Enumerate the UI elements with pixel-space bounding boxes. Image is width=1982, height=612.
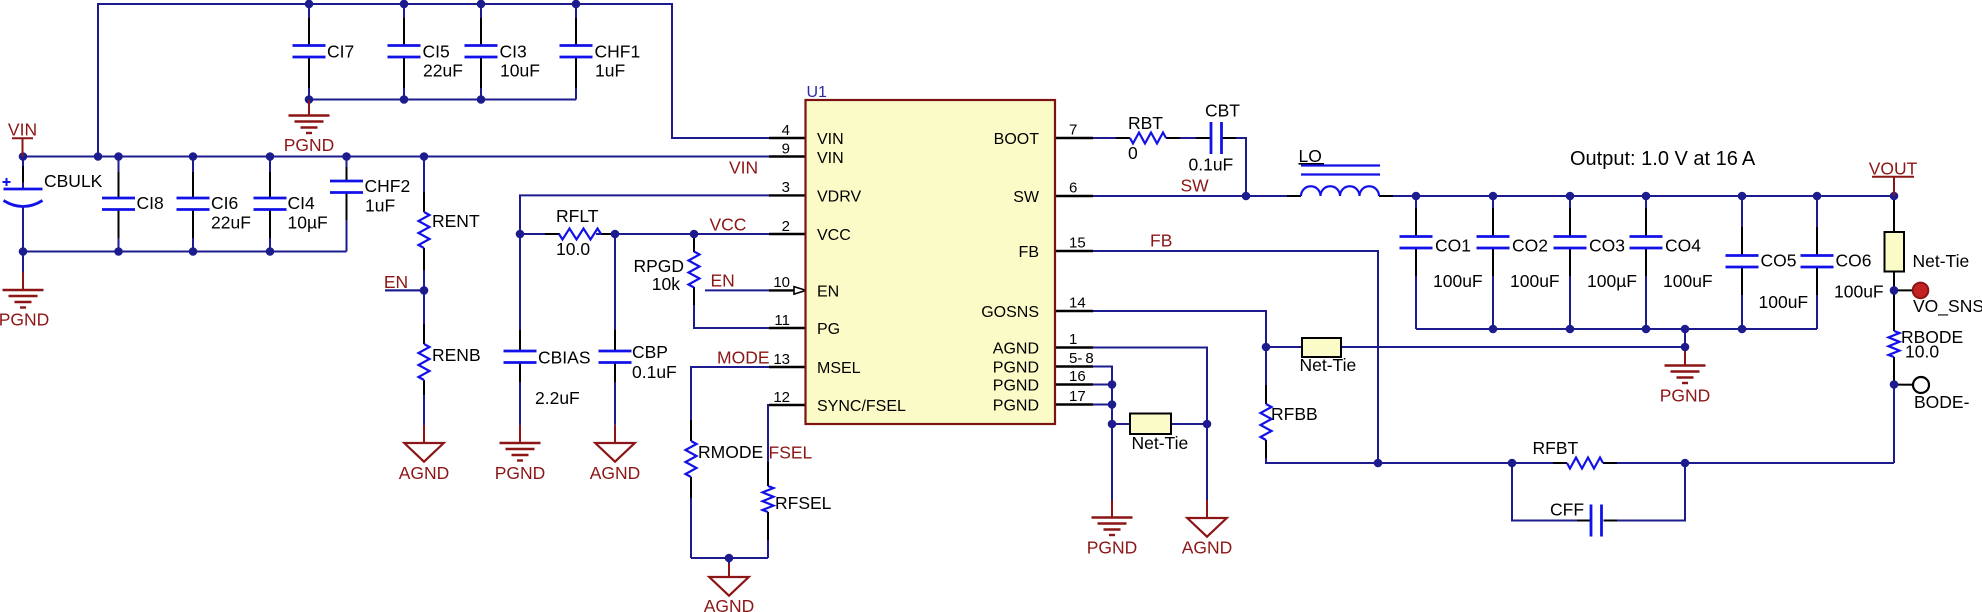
pin stubs U1 left [769,137,806,139]
svg-text:22uF: 22uF [423,61,463,81]
svg-text:GOSNS: GOSNS [981,304,1039,321]
svg-text:4: 4 [782,122,790,139]
wire CO1 leads [1415,196,1417,237]
capacitor CI4 [254,197,287,200]
wire RFBT right [1603,462,1894,464]
svg-text:SW: SW [1013,189,1040,206]
svg-text:Net-Tie: Net-Tie [1913,251,1970,271]
capacitor CO4 [1630,235,1663,238]
junction dot EN node [420,286,429,295]
wire FB pin to feedback node [1055,251,1378,463]
junction dots PGND pins bus [1108,380,1117,389]
wire feedback rail to RFBT [1378,462,1567,464]
svg-text:SYNC/FSEL: SYNC/FSEL [817,398,906,415]
svg-text:0.1uF: 0.1uF [632,362,677,382]
svg-text:CO5: CO5 [1761,251,1797,271]
wire BODE riser [1893,385,1895,464]
wire VO_SNS stub [1894,289,1913,291]
wire VDRV to VCC node [520,195,769,234]
wire top capbank bottom rail [309,99,576,101]
wire CBT to SW node [1222,138,1246,196]
svg-text:BODE-: BODE- [1914,392,1970,412]
svg-text:U1: U1 [807,84,828,101]
capacitor CI6 [177,197,210,200]
capacitor CO3 [1554,235,1587,238]
net-tie NT3 vertical [1885,232,1905,272]
wire CHF2 leads [346,157,348,182]
junction dots top rail [305,0,314,8]
wire RENT to EN node [423,248,425,290]
resistor RBODE [1889,331,1900,357]
ground AGND net-tie [1206,500,1208,518]
svg-text:100uF: 100uF [1759,292,1809,312]
junction dot net-tie AGND node [1203,420,1212,429]
svg-text:CO3: CO3 [1589,236,1625,256]
wire MSEL pin to RMODE [691,367,769,441]
wire PGND pin 17 [1055,404,1112,406]
svg-text:CO4: CO4 [1665,236,1701,256]
wire BODE- stub [1894,384,1913,386]
wire CI3 leads [480,4,482,46]
svg-text:PGND: PGND [284,135,335,155]
wire VIN rail [23,156,769,158]
wire RFSEL to AGND rail [767,512,769,558]
svg-text:VIN: VIN [729,158,758,178]
svg-text:15: 15 [1069,235,1086,252]
svg-text:FB: FB [1150,231,1172,251]
svg-text:10µF: 10µF [288,213,328,233]
wire PGND pin 16 [1055,384,1112,386]
svg-text:PG: PG [817,321,840,338]
wire LO to VOUT rail [1379,195,1894,197]
resistor RENB [419,344,430,380]
svg-text:10uF: 10uF [500,61,540,81]
svg-text:PGND: PGND [0,310,49,330]
wire RPGD to PG pin [694,288,769,329]
wire CO3 leads [1569,196,1571,237]
capacitor CFF [1590,505,1593,537]
capacitor CBT [1210,122,1213,154]
wire CBIAS branch [519,234,521,351]
capacitor CO6 [1801,254,1834,257]
wire CFF loop right [1604,463,1686,521]
svg-text:16: 16 [1069,368,1086,385]
svg-text:CBP: CBP [632,342,668,362]
wire VOUT chain [1893,196,1895,232]
junction dot output PGND node [1681,343,1690,352]
svg-text:11: 11 [774,312,790,329]
wire input capbank bottom rail [23,251,347,253]
wire CBP branch [614,234,616,351]
resistor RBT [1130,133,1166,144]
ground AGND MODE [728,558,730,564]
IC U1 body [806,100,1056,424]
resistor RFLT [559,229,601,240]
svg-text:Net-Tie: Net-Tie [1132,433,1189,453]
wire FSEL AGND rail [691,557,768,559]
net-tie NT1 horizontal [1130,414,1171,435]
svg-text:EN: EN [817,284,839,301]
svg-text:10.0: 10.0 [1905,342,1939,362]
svg-text:RPGD: RPGD [633,256,684,276]
wire CO2 leads [1492,196,1494,237]
svg-text:5- 8: 5- 8 [1069,350,1094,367]
junction dot BODE node [1890,380,1899,389]
wire net-tie1 leads [1112,423,1130,425]
svg-text:CI4: CI4 [288,193,316,213]
wire CO6 leads [1816,196,1818,256]
wire CBP to AGND [614,363,616,425]
svg-text:100uF: 100uF [1834,282,1884,302]
svg-text:100uF: 100uF [1663,271,1713,291]
svg-text:Output: 1.0 V at 16 A: Output: 1.0 V at 16 A [1570,148,1756,170]
svg-text:FB: FB [1019,244,1039,261]
wire RBT to CBT [1166,137,1210,139]
svg-text:17: 17 [1069,388,1086,405]
capacitor CO2 [1477,235,1510,238]
wire CHF1 leads [575,4,577,46]
svg-text:VIN: VIN [817,150,844,167]
capacitor CBP [599,350,632,353]
svg-text:CI8: CI8 [137,193,164,213]
component lead accents [308,18,310,45]
junction dots VCC rail [516,230,525,239]
svg-text:RFSEL: RFSEL [775,493,832,513]
wire RENB leads [423,290,425,344]
svg-text:CBIAS: CBIAS [538,348,591,368]
svg-text:CHF1: CHF1 [595,42,641,62]
junction dots output bottom rail [1489,325,1498,334]
svg-text:100µF: 100µF [1587,271,1637,291]
wire VCC rail [520,233,560,235]
capacitor CHF1 [560,44,593,47]
wire net-tie to output PGND [1341,346,1685,348]
svg-text:10.0: 10.0 [556,239,590,259]
wire RMODE to AGND rail [690,477,692,558]
wire CBULK leads [22,157,24,190]
svg-text:2: 2 [782,218,790,235]
svg-text:6: 6 [1069,180,1077,197]
resistor RPGD [689,252,700,288]
wire GOSNS to net-tie [1055,311,1302,347]
svg-text:BOOT: BOOT [994,131,1040,148]
svg-text:0: 0 [1128,143,1138,163]
pin 10 input triangle [794,287,806,295]
svg-text:1uF: 1uF [365,196,395,216]
wire CO5 leads [1741,196,1743,256]
svg-text:RBT: RBT [1128,113,1163,133]
svg-text:AGND: AGND [704,596,755,612]
wire RPGD branch [693,234,695,252]
svg-text:VCC: VCC [710,215,747,235]
svg-text:2.2uF: 2.2uF [535,388,580,408]
svg-text:22uF: 22uF [211,213,251,233]
junction dot VO_SNS node [1890,286,1899,295]
ground AGND CBP [614,425,616,443]
svg-text:SW: SW [1181,176,1210,196]
svg-text:PGND: PGND [993,398,1039,415]
wire net-tie AGND leg [1206,424,1208,500]
svg-text:1uF: 1uF [595,61,625,81]
wire CO4 leads [1645,196,1647,237]
ground PGND CBIAS [519,425,521,443]
wire EN port [385,289,424,291]
capacitor CO5 [1726,254,1759,257]
svg-text:CO2: CO2 [1512,236,1548,256]
net-tie NT2 horizontal [1302,338,1341,357]
svg-text:EN: EN [711,271,735,291]
svg-text:CI7: CI7 [327,42,354,62]
capacitor CBIAS [504,350,537,353]
ground PGND output [1684,347,1686,351]
wire CI5 leads [403,4,405,46]
svg-text:RENB: RENB [432,345,481,365]
svg-text:AGND: AGND [399,463,450,483]
junction dots VIN rail [19,152,28,161]
svg-text:PGND: PGND [993,360,1039,377]
svg-text:9: 9 [782,140,790,157]
svg-text:CI6: CI6 [211,193,238,213]
svg-text:10: 10 [773,274,790,291]
svg-text:FSEL: FSEL [769,443,813,463]
junction dots VOUT rail [1412,192,1421,201]
svg-text:MSEL: MSEL [817,360,861,377]
svg-text:7: 7 [1069,122,1077,139]
svg-text:0.1uF: 0.1uF [1189,155,1234,175]
pin stubs U1 right [1055,137,1093,139]
capacitor CBULK [3,181,11,183]
capacitor CI5 [388,44,421,47]
capacitor CI7 [293,44,326,47]
capacitor CI8 [102,197,135,200]
svg-text:PGND: PGND [1660,385,1711,405]
capacitor CHF2 [330,180,363,183]
svg-text:AGND: AGND [1182,538,1233,558]
svg-text:100uF: 100uF [1433,271,1483,291]
svg-text:AGND: AGND [590,463,641,483]
svg-text:RMODE: RMODE [698,442,763,462]
svg-text:AGND: AGND [993,341,1039,358]
svg-text:CI3: CI3 [500,42,527,62]
svg-text:CO6: CO6 [1836,251,1872,271]
svg-text:MODE: MODE [717,348,770,368]
wire AGND pin 1 [1055,348,1207,425]
wire net-tie PGND leg [1111,424,1113,500]
resistor RFSEL [763,486,774,512]
svg-text:PGND: PGND [1087,538,1138,558]
wire SYNC/FSEL pin to RFSEL [768,405,769,486]
resistor RFBT [1567,458,1603,469]
terminal VO_SNS [1913,283,1929,299]
ground PGND top capbank [308,100,310,116]
svg-text:CFF: CFF [1550,500,1584,520]
wire EN to pin 10 [705,289,769,291]
wire output capbank bottom rail [1416,328,1817,330]
wire PGND pins bus [1055,367,1112,425]
wire output PGND riser [1684,329,1686,347]
svg-text:CO1: CO1 [1435,236,1471,256]
svg-text:VO_SNS: VO_SNS [1913,296,1982,317]
wire RBODE leads [1893,290,1895,331]
wire RENT branch [423,157,425,213]
svg-text:3: 3 [782,179,790,196]
svg-text:CBULK: CBULK [44,171,103,191]
svg-text:12: 12 [773,389,790,406]
svg-text:VIN: VIN [817,131,844,148]
capacitor CO1 [1400,235,1433,238]
svg-text:13: 13 [773,351,790,368]
wire CI8 leads [118,157,120,199]
svg-text:RENT: RENT [432,211,480,231]
wire CI4 leads [269,157,271,199]
wire RFBB branch [1265,347,1267,404]
svg-text:RFLT: RFLT [556,206,599,226]
svg-text:VOUT: VOUT [1869,159,1918,179]
wire CFF loop left [1512,463,1591,521]
wire BOOT to RBT [1055,137,1130,139]
svg-text:VDRV: VDRV [817,189,861,206]
svg-text:PGND: PGND [993,378,1039,395]
svg-text:PGND: PGND [495,463,546,483]
junction dot SW node [1242,192,1251,201]
svg-text:RFBB: RFBB [1271,404,1318,424]
terminal BODE- [1913,377,1929,393]
wire CI6 leads [192,157,194,199]
junction dot FSEL AGND rail [725,554,734,563]
svg-text:RFBT: RFBT [1533,438,1579,458]
ground PGND CBULK [22,252,24,273]
svg-text:VIN: VIN [8,120,37,140]
resistor RENT [419,212,430,248]
wire CI7 leads [308,4,310,46]
svg-text:CHF2: CHF2 [365,176,411,196]
svg-text:1: 1 [1069,331,1077,348]
svg-text:CI5: CI5 [423,42,450,62]
junction dots feedback rail [1374,459,1383,468]
wire RFBB to feedback rail [1266,440,1378,463]
resistor RFBB [1261,404,1272,440]
wire VIN top rail [98,4,769,157]
svg-text:VCC: VCC [817,227,851,244]
svg-text:EN: EN [384,272,408,292]
resistor RMODE [686,441,697,477]
wire CBIAS to PGND [519,363,521,425]
svg-text:10k: 10k [652,274,680,294]
svg-text:CBT: CBT [1205,101,1240,121]
svg-text:Net-Tie: Net-Tie [1300,355,1357,375]
junction dots input bottom rail [19,247,28,256]
svg-text:100uF: 100uF [1510,271,1560,291]
junction dots top capbank bottom rail [305,95,314,104]
ground PGND net-tie [1111,500,1113,518]
ground AGND RENB [423,395,425,425]
svg-text:14: 14 [1069,295,1086,312]
junction dot GOSNS node [1262,343,1271,352]
wire SW to LO [1055,195,1301,197]
capacitor CI3 [465,44,498,47]
